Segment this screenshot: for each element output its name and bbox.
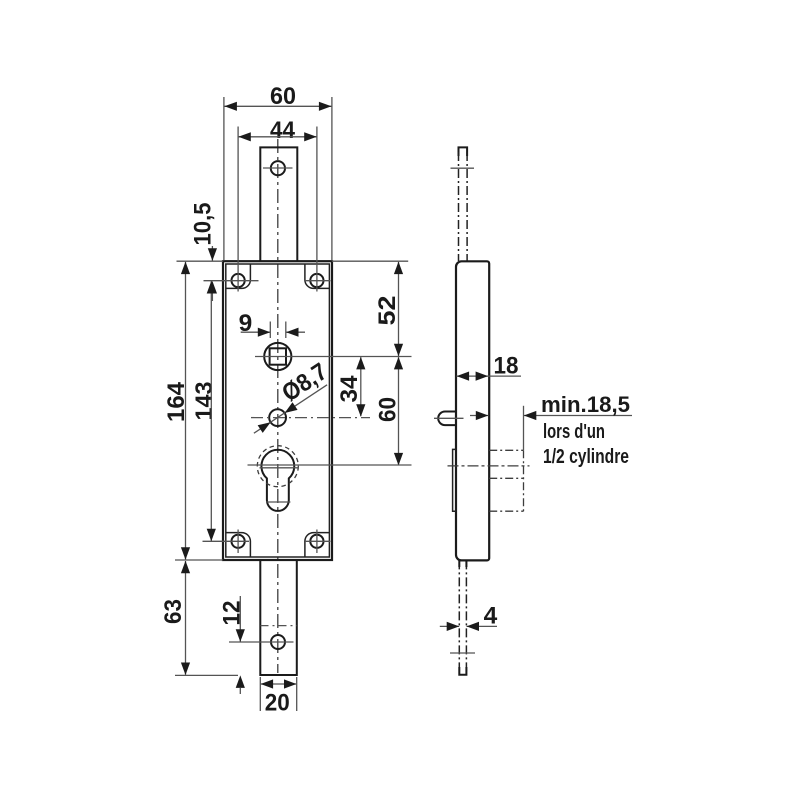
svg-text:20: 20: [265, 689, 290, 716]
svg-text:lors d'un: lors d'un: [543, 421, 605, 443]
svg-text:63: 63: [160, 599, 187, 624]
svg-text:44: 44: [270, 117, 295, 144]
svg-text:min.18,5: min.18,5: [541, 392, 630, 417]
svg-text:18: 18: [494, 352, 519, 379]
svg-text:4: 4: [484, 602, 498, 629]
svg-text:60: 60: [375, 397, 402, 422]
svg-text:34: 34: [336, 375, 363, 402]
svg-text:10,5: 10,5: [189, 203, 216, 246]
svg-text:52: 52: [374, 296, 401, 326]
svg-text:12: 12: [218, 601, 245, 626]
svg-text:143: 143: [191, 382, 218, 421]
svg-text:1/2 cylindre: 1/2 cylindre: [543, 445, 629, 468]
